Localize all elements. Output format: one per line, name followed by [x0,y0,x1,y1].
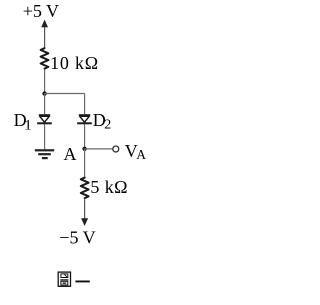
wire junction to D1 [44,94,46,115]
label D1 [14,110,32,133]
terminal VA circle [113,146,119,152]
svg-text:2: 2 [104,117,111,132]
svg-text:−5 V: −5 V [59,227,95,247]
diode D2 [77,114,92,124]
caption 圖一 figure one [58,272,90,286]
wire node A to terminal [85,148,113,150]
power +5V arrow [41,20,48,48]
svg-text:10 kΩ: 10 kΩ [50,53,99,73]
wire D2 to node A [84,124,86,149]
label D2 [93,110,111,132]
junction node [42,91,46,95]
wire R2 to -5V arrow [84,199,86,219]
power -5V arrow [81,218,88,226]
resistor R2 [81,178,89,199]
svg-text:+5 V: +5 V [23,1,59,21]
node A junction [82,147,86,151]
svg-text:A: A [136,147,146,162]
wire D1 to ground [44,124,46,149]
wire node A to R2 [84,149,86,177]
diode D1 [37,114,52,124]
label VA [125,141,147,162]
resistor R1 [41,48,49,68]
svg-text:5 kΩ: 5 kΩ [90,177,127,197]
wire horizontal bus [45,93,85,95]
svg-text:1: 1 [24,117,32,133]
wire R1 to junction [44,70,46,94]
ground [35,149,54,159]
wire bus to D2 [84,94,86,115]
svg-text:A: A [64,144,77,164]
